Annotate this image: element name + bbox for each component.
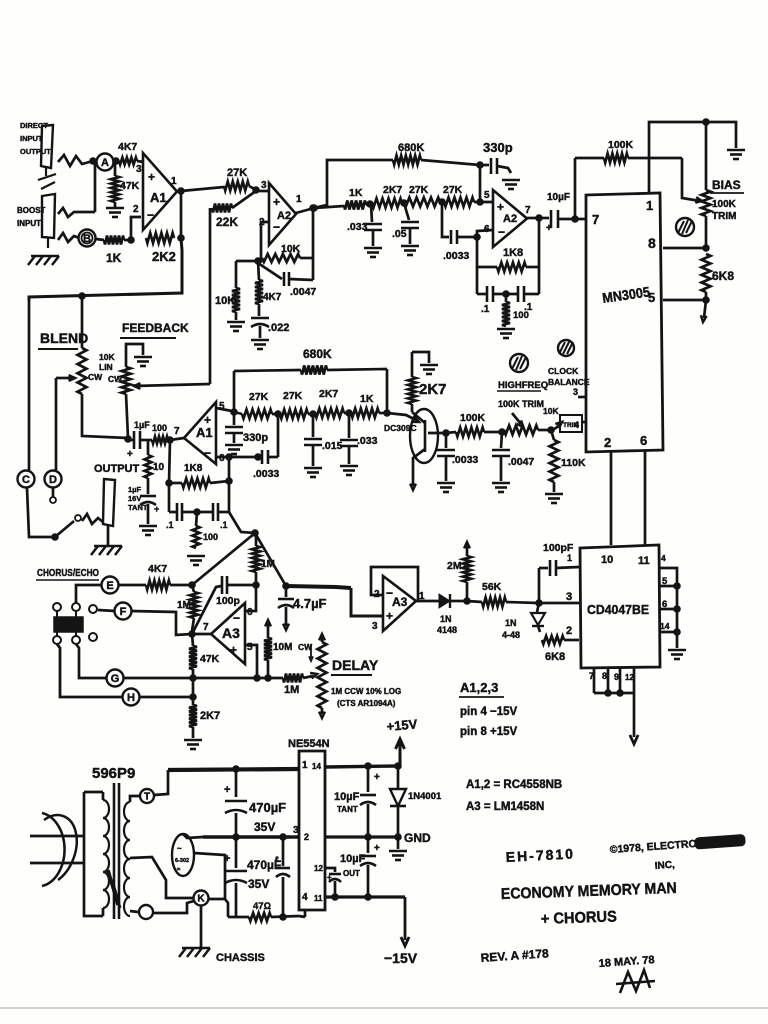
wire 22K to pin3 junction: [232, 191, 256, 208]
svg-text:47K: 47K: [200, 653, 220, 665]
trimmer screw highfreq: [510, 354, 528, 372]
op-amp A3: [211, 603, 245, 664]
resistor 110K label: [561, 457, 586, 469]
wire lambda left: [192, 530, 258, 585]
wire top rail psu: [168, 769, 299, 770]
CW label delay: [298, 642, 313, 661]
resistor 1K row2: [314, 201, 366, 210]
capacitor .033 mid label: [357, 435, 378, 447]
pin 3 label NE554N: [293, 825, 299, 836]
svg-text:+: +: [546, 223, 552, 234]
wire 4K7 to junction E2: [170, 582, 195, 589]
svg-text:8: 8: [648, 235, 656, 251]
op-amp A2 labels: [273, 194, 302, 234]
svg-text:7: 7: [174, 426, 180, 437]
wire 22K down to feedback wiper: [209, 208, 212, 384]
svg-text:HIGHFREQ: HIGHFREQ: [498, 380, 548, 391]
resistor 680K top label: [398, 142, 424, 154]
capacitor .05 row2 label: [392, 228, 407, 240]
terminal under D: [50, 488, 56, 503]
svg-text:4K7: 4K7: [148, 563, 167, 575]
capacitor 1uF tant: [140, 478, 159, 524]
resistor 2K7 collector: [408, 352, 416, 404]
svg-text:6-302: 6-302: [175, 858, 189, 864]
pot BLEND 10K: [78, 296, 129, 438]
IC MN3005 label: [601, 283, 651, 306]
svg-text:D: D: [49, 474, 57, 486]
jack OUTPUT body: [103, 479, 115, 526]
svg-text:1K: 1K: [349, 187, 363, 199]
svg-text:T: T: [144, 792, 150, 803]
svg-text:1M CCW 10% LOG: 1M CCW 10% LOG: [331, 687, 401, 696]
svg-text:−: −: [147, 208, 154, 222]
resistor 1K mid: [351, 409, 379, 418]
svg-text:E: E: [106, 580, 113, 592]
wire 1K to transistor: [379, 413, 419, 422]
svg-text:+: +: [374, 843, 380, 854]
junction 470a: [233, 766, 240, 773]
svg-text:1M: 1M: [284, 684, 299, 696]
pot DELAY: [318, 634, 327, 718]
wire 27K to A2 pin3: [249, 186, 269, 193]
pot FEEDBACK CW label: [108, 374, 123, 384]
wire loop3 right: [228, 481, 231, 512]
wire junction down to A2b pin5: [477, 165, 484, 205]
svg-text:B: B: [83, 233, 91, 245]
svg-text:27K: 27K: [283, 390, 303, 402]
svg-text:A3: A3: [222, 625, 240, 641]
svg-text:K: K: [197, 894, 205, 905]
svg-text:CW: CW: [88, 372, 103, 382]
wire G line: [123, 675, 283, 682]
wire 47K to G line: [192, 669, 195, 678]
ground under .05 row2: [401, 246, 419, 255]
wire lambda right: [255, 533, 289, 589]
svg-text:8: 8: [602, 671, 607, 681]
junction mid b: [308, 411, 316, 418]
ground under 330p mid: [225, 445, 243, 454]
svg-text:110K: 110K: [561, 457, 586, 469]
wire E to switch: [76, 585, 102, 603]
capacitor 100pF cd: [539, 560, 579, 603]
trimpot clock balance 10K: [543, 406, 582, 432]
IC NE554N regulator body: [299, 751, 325, 910]
wire loop2 left: [476, 267, 479, 294]
-15V label: [384, 950, 418, 966]
capacitor 100p chorus: [192, 576, 259, 634]
HIGH FREQ label: [497, 380, 548, 391]
svg-text:9: 9: [614, 672, 619, 682]
REV A #178 label: [480, 946, 549, 965]
IC CD4047BE label: [587, 602, 649, 617]
resistor 1M a: [190, 585, 198, 631]
resistor 100 out label: [152, 423, 167, 433]
wire A2 output: [296, 205, 317, 213]
wire D wiper: [54, 470, 56, 471]
FEEDBACK label: [120, 321, 189, 338]
wire lamp right: [194, 853, 225, 899]
resistor 110K: [550, 430, 559, 482]
svg-text:100p: 100p: [216, 595, 240, 607]
svg-text:2: 2: [133, 204, 139, 215]
wire pin5 junction: [663, 292, 709, 303]
svg-text:FEEDBACK: FEEDBACK: [122, 321, 189, 335]
ground chorus: [184, 727, 202, 749]
resistor 100 loop3: [193, 512, 200, 548]
date 18 MAY 78: [598, 954, 655, 970]
svg-text:.1: .1: [166, 520, 174, 530]
svg-text:TANT: TANT: [337, 805, 358, 814]
pin 4 label NE554N: [302, 892, 323, 903]
capacitor .022: [251, 304, 269, 338]
svg-text:A: A: [101, 157, 109, 169]
junction A3 in: [189, 631, 196, 638]
resistor 100K to bias label: [608, 139, 634, 151]
svg-text:35V: 35V: [254, 820, 275, 834]
svg-text:680K: 680K: [303, 347, 332, 361]
svg-text:3: 3: [566, 591, 572, 603]
capacitor .0033 q label: [452, 454, 478, 466]
wire output jack tip: [82, 514, 103, 524]
transistor Q1 DC309C: [410, 404, 438, 463]
capacitor .0047: [258, 263, 313, 286]
ground under .015: [304, 468, 322, 477]
resistor 10K vert label: [215, 295, 235, 307]
pin 5 label A2b: [484, 190, 490, 201]
wire bias wiper: [682, 158, 702, 203]
svg-text:.0047: .0047: [290, 286, 316, 298]
wire A3 apex: [192, 633, 211, 636]
svg-text:.022: .022: [268, 322, 289, 334]
svg-text:DELAY: DELAY: [332, 657, 379, 673]
node D: [45, 471, 62, 488]
capacitor 10uF tant b: [360, 837, 380, 897]
node F: [115, 603, 132, 620]
transistor Q1 label: [384, 423, 417, 433]
svg-text:10K: 10K: [281, 243, 301, 255]
capacitor 1uF out label: [134, 420, 150, 430]
resistor 47ohm label: [253, 901, 271, 912]
svg-text:−: −: [233, 611, 240, 625]
resistor 47ohm: [249, 913, 271, 921]
diode 1N4148: [416, 594, 465, 608]
capacitor 330p mid label: [243, 432, 268, 444]
wire 680K to junction: [421, 160, 483, 168]
svg-text:27K: 27K: [249, 391, 269, 403]
resistor 100 loop3 label: [203, 532, 218, 542]
capacitor 10uF tant a: [360, 766, 380, 837]
wire 1K8 right up to pin6: [228, 457, 231, 481]
svg-text:CW: CW: [108, 374, 123, 384]
resistor 2K7 mid label: [319, 388, 338, 400]
svg-text:A1: A1: [150, 190, 167, 205]
ground under 47K: [106, 202, 124, 217]
note A3 type: [466, 801, 544, 813]
svg-text:22K: 22K: [216, 215, 238, 229]
resistor 1K: [104, 236, 124, 245]
capacitor 4.7uF label: [293, 596, 327, 611]
GND label: [404, 831, 431, 845]
junction row2 b: [401, 200, 408, 207]
resistor 10M label: [273, 642, 292, 653]
OUTPUT label: [94, 463, 140, 475]
chassis ground psu: [179, 948, 210, 957]
op-amp A1b: [184, 402, 216, 464]
capacitor .015: [304, 414, 322, 466]
resistor 1M a label: [177, 600, 191, 611]
svg-text:100: 100: [203, 532, 218, 542]
note pin4: [460, 706, 518, 718]
wire CD4047 pin6 stub: [660, 606, 680, 613]
wire AC live: [30, 835, 84, 838]
svg-text:A3: A3: [392, 595, 408, 609]
pin 4 label clock trim: [574, 420, 586, 430]
capacitor .1 d label: [220, 520, 228, 530]
svg-text:H: H: [127, 692, 135, 704]
capacitor .033 row2: [364, 204, 382, 246]
svg-text:10µF: 10µF: [340, 853, 366, 865]
resistor 27K mid b label: [283, 390, 303, 402]
svg-text:+: +: [497, 200, 504, 214]
resistor 4K7 chorus label: [148, 563, 167, 575]
capacitor 1uF psu: [275, 837, 290, 917]
svg-text:470µF: 470µF: [249, 800, 286, 815]
svg-text:1: 1: [302, 760, 308, 771]
wire jack J1 tip to node A: [58, 155, 93, 166]
resistor 1M b label: [261, 559, 275, 570]
svg-text:100: 100: [152, 423, 167, 433]
resistor 2K7 chorus label: [200, 710, 220, 722]
capacitor .05 row2: [401, 203, 419, 244]
svg-text:+: +: [127, 449, 133, 460]
wire G node down: [192, 678, 195, 705]
resistor 1K8 mid label: [184, 463, 203, 474]
resistor 2K7 chorus: [189, 705, 197, 727]
node T: [140, 789, 154, 803]
svg-text:INPUT: INPUT: [17, 219, 41, 228]
wire A2 out up to 680K: [314, 160, 393, 208]
wire switch to H: [57, 644, 123, 697]
wire E to 4K7: [119, 584, 146, 587]
svg-text:4.7µF: 4.7µF: [293, 596, 327, 611]
resistor 56K: [467, 598, 539, 607]
svg-text:4: 4: [574, 420, 579, 430]
svg-text:4148: 4148: [437, 625, 457, 635]
op-amp A3 labels: [203, 607, 253, 657]
resistor 1K8 mid: [166, 440, 233, 488]
op-amp A1: [143, 153, 177, 230]
+15V label: [386, 716, 418, 734]
svg-text:6: 6: [484, 224, 490, 235]
junction 470b: [233, 834, 240, 841]
resistor 1M b: [252, 533, 260, 585]
capacitor 10uF tant b label: [340, 853, 366, 878]
capacitor .1 c label: [166, 520, 174, 530]
svg-text:1K8: 1K8: [184, 463, 203, 474]
jack J2 boost input label: [17, 206, 46, 228]
svg-text:ℓ: ℓ: [275, 855, 279, 864]
wire 10uF to MN3005 pin7: [572, 216, 586, 223]
svg-text:INC,: INC,: [654, 860, 675, 872]
DELAY label: [331, 657, 379, 675]
title ECONOMY MEMORY MAN: [501, 880, 677, 903]
svg-text:3: 3: [293, 825, 299, 836]
svg-text:+: +: [230, 643, 237, 657]
wire 1M to delay pot: [303, 673, 317, 679]
junction blend top: [79, 293, 86, 300]
ground under 330p top: [502, 180, 520, 189]
capacitor 1uF tant label: [128, 485, 148, 512]
capacitor 1uF out: [127, 431, 152, 460]
svg-text:680K: 680K: [398, 142, 424, 154]
svg-text:LIN: LIN: [99, 362, 113, 372]
svg-text:OUT: OUT: [343, 869, 360, 878]
capacitor .022 label: [268, 322, 289, 334]
wire 680K right down: [384, 369, 391, 416]
svg-text:−: −: [273, 220, 280, 234]
pin 7 label MN3005: [592, 212, 599, 227]
wire loop3 mid: [183, 509, 213, 516]
op-amp A3b labels: [372, 586, 425, 632]
wire loop2 mid: [493, 291, 517, 298]
capacitor .0033 mid label: [253, 468, 279, 480]
capacitor 330p mid: [225, 412, 243, 443]
capacitor .1 a label: [481, 304, 490, 315]
svg-text:A1,2 = RC4558NB: A1,2 = RC4558NB: [466, 779, 562, 791]
lamp 6-302: [172, 834, 194, 876]
capacitor pin12 tant: [325, 868, 341, 897]
svg-text:A1,2,3: A1,2,3: [460, 680, 498, 695]
ground feedback pot: [134, 357, 152, 366]
wire A1b out: [167, 437, 184, 444]
resistor 22K label: [216, 215, 238, 229]
pin 2 label NE554N: [304, 832, 309, 842]
svg-text:4: 4: [302, 892, 308, 903]
capacitor .1 d: [213, 503, 229, 521]
svg-text:+15V: +15V: [386, 716, 418, 734]
resistor 2K7 row2 label: [383, 184, 402, 196]
node K: [194, 891, 209, 906]
op-amp A3b: [383, 576, 416, 631]
svg-text:C: C: [22, 474, 30, 486]
svg-text:11: 11: [638, 555, 650, 567]
svg-text:6: 6: [219, 453, 225, 464]
resistor 27K a label: [227, 167, 247, 179]
node B: [79, 230, 96, 247]
svg-text:2K7: 2K7: [383, 184, 402, 196]
svg-text:CHORUS/ECHO: CHORUS/ECHO: [37, 568, 99, 579]
CHORUS/ECHO label: [36, 568, 99, 580]
svg-text:1µF: 1µF: [134, 420, 150, 430]
switch chorus block: [53, 603, 83, 644]
resistor 27K row2 d: [444, 198, 474, 207]
svg-text:5: 5: [484, 190, 490, 201]
wire loop2 right: [538, 267, 541, 294]
svg-text:56K: 56K: [482, 581, 502, 593]
wire CD4047 to -15V arrow: [630, 693, 638, 744]
diode 1N4148 b: [531, 603, 545, 626]
wire .0033 up to pin6: [477, 230, 493, 237]
capacitor .1 a: [477, 286, 493, 302]
resistor 1K label: [106, 251, 122, 265]
capacitor .0033 row2 label: [443, 250, 469, 262]
wire CD4047 pin4 stub: [659, 568, 677, 648]
node G: [107, 670, 124, 687]
wire trim to junction: [538, 427, 554, 434]
resistor 1M delay label: [284, 684, 299, 696]
wire row2 to A2b pin5: [474, 201, 493, 204]
svg-text:pin 4 −15V: pin 4 −15V: [460, 706, 518, 718]
resistor 4K7 label: [118, 141, 137, 153]
svg-text:596P9: 596P9: [92, 765, 135, 782]
jack J1 direct input/output label: [20, 121, 51, 156]
svg-text:GND: GND: [404, 831, 431, 845]
terminal secondary bottom: [139, 905, 153, 919]
svg-text:+: +: [224, 784, 230, 796]
svg-text:(CTS AR1094A): (CTS AR1094A): [337, 699, 396, 708]
svg-text:+: +: [154, 504, 159, 514]
svg-text:12: 12: [314, 864, 323, 873]
resistor 100 loop2 label: [513, 310, 529, 321]
wire K to chassis: [200, 905, 203, 947]
wire C down to switch: [27, 488, 58, 540]
wire pin5 junction up: [233, 371, 236, 412]
wire gnd rail: [325, 834, 401, 841]
capacitor 4.7uF: [278, 586, 294, 630]
svg-text:100: 100: [513, 310, 529, 321]
ground psu: [389, 837, 407, 860]
wire T to top rail: [154, 770, 168, 795]
diode 1N4001: [390, 766, 406, 837]
junction cap1 mid: [280, 834, 287, 841]
junction 56K out: [536, 600, 543, 607]
svg-text:DC309C: DC309C: [384, 423, 417, 433]
resistor 680K mid: [234, 366, 387, 375]
chassis ground under jack J2: [28, 256, 59, 265]
capacitor .0047 q: [492, 432, 510, 481]
svg-text:.033: .033: [347, 221, 368, 233]
svg-text:1: 1: [171, 176, 177, 187]
BLEND label: [38, 330, 88, 349]
resistor 27K row2 c label: [409, 184, 429, 196]
wire 1K to junction: [124, 237, 134, 244]
wire CD4047 bottom pins: [594, 668, 634, 696]
pin 6 label CD4047: [662, 599, 667, 610]
svg-text:35V: 35V: [248, 877, 269, 891]
svg-text:100K TRIM: 100K TRIM: [498, 399, 544, 409]
wire A1 output down to 2K2: [178, 188, 185, 242]
resistor 2M2 label: [447, 560, 468, 572]
ground under 1uF tant: [139, 526, 157, 535]
resistor 6K8 cd label: [545, 651, 565, 663]
junction 10uF a: [365, 763, 372, 770]
svg-text:+: +: [374, 772, 380, 783]
wire A2 pin2 down to fb node: [258, 222, 269, 261]
svg-text:INPUT: INPUT: [20, 134, 43, 143]
svg-text:10µF: 10µF: [334, 791, 360, 803]
capacitor 10uF tant a label: [334, 791, 360, 814]
pin 1 label NE554N: [302, 760, 321, 771]
wire CD4047 pin5 stub: [660, 583, 680, 590]
wire lamp top to mid rail: [183, 834, 203, 838]
svg-text:11: 11: [314, 894, 323, 903]
copyright 1978 Electro-Harmonix: [609, 835, 745, 872]
ground 2K7 collector: [412, 352, 438, 374]
svg-text:7: 7: [525, 205, 531, 216]
pin 9 label CD4047: [614, 672, 619, 682]
diode 1N4148 label: [437, 614, 457, 635]
junction diode out: [464, 598, 471, 605]
